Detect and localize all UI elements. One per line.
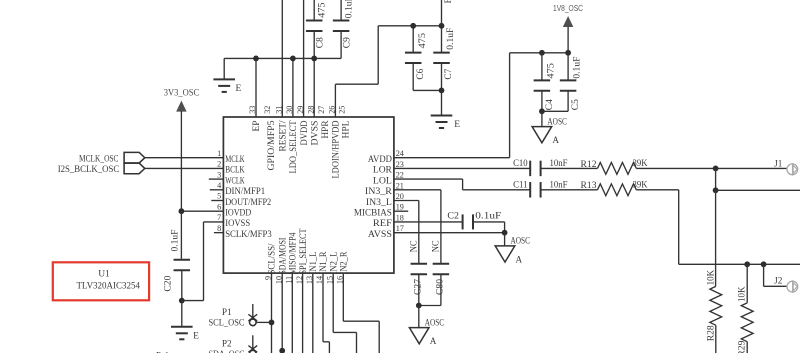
svg-text:C4: C4 [544,99,554,111]
svg-text:NC: NC [408,240,418,252]
svg-text:C6: C6 [415,68,425,80]
svg-text:0.1uF: 0.1uF [170,230,180,252]
svg-text:C11: C11 [513,179,528,189]
svg-text:IN3_L: IN3_L [366,197,392,207]
svg-text:3V3_OSC: 3V3_OSC [164,89,199,99]
svg-text:20: 20 [396,192,404,201]
svg-text:0.1uF: 0.1uF [343,0,353,18]
svg-text:27: 27 [317,106,326,114]
svg-text:P1: P1 [222,308,232,318]
svg-text:LOL: LOL [373,175,392,185]
svg-text:NC: NC [431,240,441,252]
svg-text:1V8_OSC: 1V8_OSC [553,4,583,13]
svg-text:SCL_OSC: SCL_OSC [209,319,245,329]
svg-text:IN3_R: IN3_R [365,186,392,196]
svg-text:MCLK: MCLK [225,154,245,164]
svg-text:DVSS: DVSS [309,121,319,146]
svg-text:F: F [443,0,453,3]
svg-text:7: 7 [217,213,221,222]
svg-text:SCLK/MFP3: SCLK/MFP3 [225,229,272,239]
svg-text:EP: EP [251,121,261,132]
svg-text:0.1uF: 0.1uF [572,57,582,79]
svg-text:U1: U1 [98,269,110,279]
svg-text:R28: R28 [706,325,716,342]
svg-text:GPIO/MFP5: GPIO/MFP5 [266,120,276,171]
svg-text:C10: C10 [513,158,528,168]
svg-text:I2S_BCLK_OSC: I2S_BCLK_OSC [58,165,120,175]
svg-text:39K: 39K [633,158,648,168]
svg-text:IOVSS: IOVSS [225,218,250,228]
svg-text:10K: 10K [706,269,716,285]
svg-text:IN1_R: IN1_R [318,252,328,275]
svg-text:J2: J2 [774,276,783,286]
svg-text:P2: P2 [222,339,232,349]
svg-text:MCLK_OSC: MCLK_OSC [79,154,119,164]
svg-text:E: E [236,84,242,94]
svg-text:A: A [552,135,559,145]
svg-text:0.1uF: 0.1uF [475,211,501,221]
svg-text:REF: REF [373,218,392,228]
svg-text:AOSC: AOSC [425,317,445,327]
svg-text:DVDD: DVDD [299,120,309,145]
svg-text:BCLK: BCLK [225,165,245,175]
svg-text:C5: C5 [570,99,580,111]
svg-text:R29: R29 [737,340,747,353]
svg-text:MISO/MFP4: MISO/MFP4 [288,232,298,274]
svg-text:2: 2 [217,160,221,169]
svg-text:WCLK: WCLK [225,175,245,185]
svg-text:DIN/MFP1: DIN/MFP1 [225,186,265,196]
svg-text:10nF: 10nF [550,179,568,189]
svg-text:24: 24 [396,149,404,158]
svg-text:C80: C80 [435,278,445,295]
svg-text:IOVDD: IOVDD [225,208,251,218]
svg-text:LOR: LOR [373,165,392,175]
svg-text:4: 4 [217,181,221,190]
svg-text:AVSS: AVSS [368,229,392,239]
svg-text:DOUT/MFP2: DOUT/MFP2 [225,197,271,207]
svg-text:E: E [193,331,199,341]
svg-text:C2: C2 [447,211,459,221]
svg-text:8: 8 [217,224,221,233]
svg-text:10K: 10K [737,286,747,302]
svg-text:E: E [454,120,460,130]
svg-text:C9: C9 [341,37,351,49]
svg-text:C7: C7 [443,68,453,80]
svg-text:19: 19 [396,203,404,212]
svg-text:C27: C27 [412,278,422,295]
svg-text:C8: C8 [315,37,325,49]
svg-text:C20: C20 [163,275,173,292]
svg-text:R12: R12 [581,159,597,169]
svg-text:0.1uF: 0.1uF [445,28,455,50]
svg-text:HPL: HPL [341,121,351,139]
svg-text:LDO_SELECT: LDO_SELECT [288,120,298,173]
svg-text:AOSC: AOSC [511,236,531,246]
svg-text:22: 22 [396,171,404,180]
svg-text:AOSC: AOSC [547,116,567,126]
svg-text:6: 6 [217,202,221,211]
svg-text:23: 23 [396,160,404,169]
svg-text:TLV320AIC3254: TLV320AIC3254 [76,280,140,291]
svg-text:AVDD: AVDD [368,154,392,164]
svg-text:SDA/MOSI: SDA/MOSI [277,238,287,275]
svg-text:39K: 39K [633,179,648,189]
svg-text:21: 21 [396,181,404,190]
svg-text:SCL/SS/: SCL/SS/ [267,243,277,274]
svg-text:475: 475 [317,2,327,18]
svg-text:18: 18 [396,213,404,222]
svg-text:RESET/: RESET/ [278,120,288,152]
svg-text:475: 475 [545,63,555,79]
svg-text:1: 1 [217,149,221,158]
svg-text:32: 32 [263,106,272,114]
svg-text:3: 3 [217,170,221,179]
svg-text:25: 25 [338,106,347,114]
svg-text:IN1_L: IN1_L [308,252,318,275]
svg-text:HPR: HPR [320,121,330,139]
svg-text:SPI_SELECT: SPI_SELECT [298,228,308,274]
svg-text:R13: R13 [581,180,598,190]
svg-text:475: 475 [417,32,427,48]
svg-text:A: A [430,336,437,346]
svg-text:A: A [516,254,523,264]
svg-text:10nF: 10nF [550,158,568,168]
svg-text:IN2_R: IN2_R [339,252,349,275]
svg-text:5: 5 [217,192,221,201]
svg-text:J1: J1 [774,158,783,168]
svg-text:17: 17 [396,224,404,233]
svg-text:MICBIAS: MICBIAS [354,208,392,218]
svg-text:LDOIN/HPVDD: LDOIN/HPVDD [331,120,341,178]
svg-text:IN2_L: IN2_L [328,252,338,275]
